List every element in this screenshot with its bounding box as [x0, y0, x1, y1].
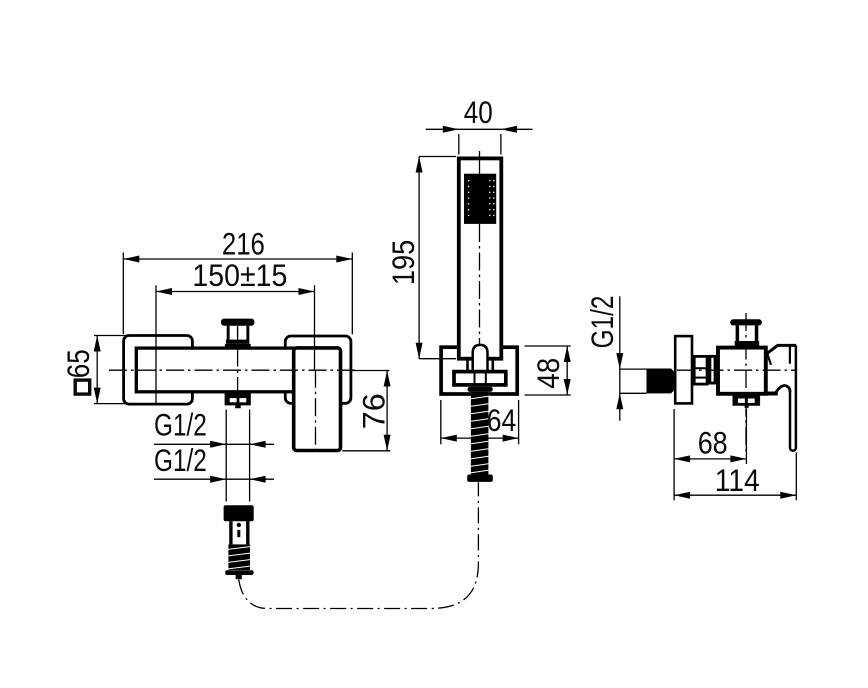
outlet slot right side — [748, 399, 755, 403]
wall flange left — [124, 336, 193, 405]
hand shower body — [459, 158, 502, 358]
hose coil left stub — [236, 575, 242, 579]
outlet block side — [733, 393, 761, 408]
handle bump — [776, 386, 791, 393]
svg-text:G1/2: G1/2 — [154, 442, 207, 478]
holder neck right — [491, 360, 494, 370]
svg-text:68: 68 — [698, 425, 728, 461]
handle front — [294, 348, 341, 451]
outlet slot right — [239, 398, 246, 402]
mixer body side — [718, 348, 766, 394]
centerline handle vertical front — [315, 370, 317, 451]
block A inner line top — [693, 367, 709, 369]
dim G1/2 lower front — [154, 442, 274, 483]
svg-text:150±15: 150±15 — [192, 257, 287, 293]
spray face — [464, 174, 496, 224]
cartridge base side — [735, 341, 760, 346]
svg-text:195: 195 — [385, 240, 421, 286]
hose connector body left wall — [229, 521, 232, 544]
hose connector nut front — [224, 505, 254, 521]
svg-text:76: 76 — [356, 393, 392, 429]
hose connector body right wall — [246, 521, 249, 544]
centerline outlet vertical front — [237, 349, 239, 392]
svg-text:48: 48 — [530, 358, 566, 389]
handle inner short line — [789, 347, 791, 364]
dim 68 — [674, 409, 746, 500]
handle base bar — [766, 392, 778, 396]
centerline vertical side — [745, 313, 747, 455]
svg-text:G1/2: G1/2 — [584, 296, 620, 349]
cartridge base front — [226, 340, 249, 344]
handle wedge diagonal — [767, 354, 771, 365]
dim 76 — [342, 371, 391, 451]
holder neck left — [466, 360, 469, 370]
cartridge cap side — [730, 319, 762, 325]
hose nut inner line left — [474, 370, 476, 387]
handle lever outer — [790, 345, 796, 450]
hose connector bar — [237, 530, 240, 537]
dim 65 — [60, 336, 126, 404]
cartridge feet side — [733, 346, 761, 349]
outlet slot left — [230, 398, 237, 402]
hose coil left flange — [225, 570, 253, 575]
cartridge cap front — [221, 319, 254, 326]
hose connector dot — [237, 523, 241, 527]
cartridge neck right bar front — [246, 326, 249, 340]
centerline horizontal front — [109, 369, 358, 371]
svg-text:40: 40 — [464, 94, 493, 130]
dim 216 — [123, 225, 352, 334]
outlet slot left side — [738, 399, 745, 403]
mixer body bar — [136, 348, 300, 392]
svg-text:114: 114 — [715, 462, 760, 498]
shower centerline top — [479, 151, 481, 174]
hose collar — [468, 387, 493, 392]
dim G1/2 side — [584, 296, 647, 421]
wall flange right — [285, 336, 351, 403]
handle top edge — [767, 345, 797, 353]
wall flange side — [675, 336, 692, 403]
centerline horizontal side — [677, 369, 796, 371]
cartridge neck left side — [736, 325, 740, 341]
svg-text:65: 65 — [60, 349, 96, 378]
hose nut under holder — [454, 372, 506, 385]
holder dome — [473, 345, 488, 371]
dim 40 — [426, 94, 533, 155]
dim 150±15 — [156, 257, 315, 403]
nipple taper — [671, 369, 675, 394]
dim 48 — [525, 346, 571, 395]
connector block B — [710, 356, 715, 383]
cartridge neck mid line front — [237, 326, 238, 340]
dim 114 — [674, 453, 796, 501]
hose coil left — [227, 544, 251, 570]
cartridge neck left bar front — [227, 326, 230, 340]
outlet block front — [225, 393, 251, 409]
cartridge feet front — [225, 344, 251, 347]
block A inner line bottom — [693, 377, 709, 379]
svg-text:64: 64 — [487, 402, 517, 438]
hose coil right — [470, 392, 491, 475]
dim 195 — [385, 157, 456, 359]
dim G1/2 upper front — [154, 407, 274, 502]
shower centerline dash — [479, 224, 481, 391]
hose nut inner line right — [485, 370, 487, 387]
connector block A — [694, 356, 707, 384]
hose coil right flange — [467, 475, 493, 482]
hose path dash-dot — [239, 482, 479, 608]
cartridge neck right side — [755, 325, 759, 341]
dim 64 — [441, 400, 519, 444]
svg-text:G1/2: G1/2 — [154, 407, 207, 443]
holder bracket — [441, 347, 517, 394]
threaded nipple — [647, 369, 672, 394]
